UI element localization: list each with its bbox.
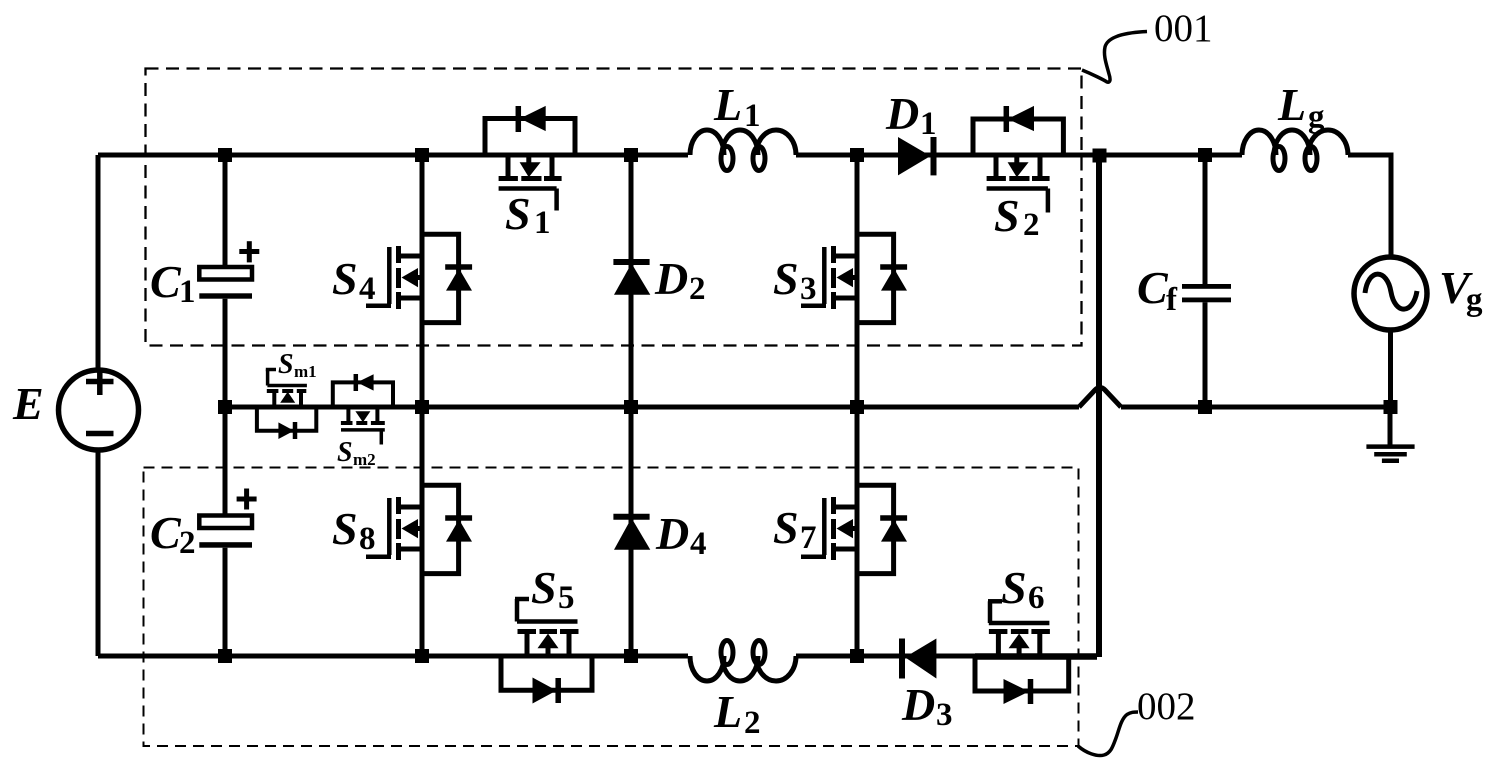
svg-text:2: 2 [1023, 207, 1040, 243]
node bottom rail S8 [415, 649, 429, 663]
svg-text:S: S [278, 349, 294, 380]
svg-text:g: g [1466, 282, 1483, 318]
dashed box 002 [144, 468, 1079, 747]
svg-text:3: 3 [800, 271, 817, 307]
wire Vg bottom [1388, 330, 1393, 407]
svg-text:D: D [655, 508, 689, 559]
node bottom rail D4 [624, 649, 638, 663]
node top rail C1 [218, 148, 232, 162]
svg-text:g: g [1308, 99, 1325, 135]
inductor L2 [690, 641, 796, 682]
svg-text:L: L [713, 79, 742, 130]
node middle rail C1C2 [218, 400, 232, 414]
wire middle rail right [1121, 405, 1390, 410]
wire top rail left [98, 153, 688, 158]
diode of S6 (antiparallel) [975, 656, 1069, 704]
wire E branch bottom [96, 449, 101, 656]
inductor L1 [690, 130, 796, 171]
wire Cf branch top [1203, 155, 1208, 284]
Vg sine wave [1365, 274, 1417, 309]
svg-text:1: 1 [920, 106, 937, 142]
diode D1 [898, 137, 934, 175]
node middle rail S3S7 [850, 400, 864, 414]
switch S1 body [499, 155, 562, 211]
diode of S2 (antiparallel) [973, 106, 1063, 155]
wire S7 branch [855, 407, 860, 656]
diode of S8 (antiparallel) [422, 485, 472, 573]
switch Sm1 body [266, 370, 307, 408]
svg-text:E: E [12, 378, 44, 429]
wire D4 branch [629, 407, 634, 656]
svg-text:L: L [713, 686, 742, 737]
svg-text:S: S [505, 188, 531, 239]
svg-text:D: D [901, 679, 935, 730]
node middle rail D2D4 [624, 400, 638, 414]
wire hop over vertical at x=1100 [1079, 388, 1121, 408]
wire S4 branch [420, 155, 425, 407]
node top rail S4 [415, 148, 429, 162]
svg-text:D: D [885, 88, 919, 139]
switch S4 body [366, 246, 422, 309]
node top rail Cf [1198, 148, 1212, 162]
ground bars [1366, 447, 1414, 461]
C2 plus sign [237, 489, 257, 510]
wire C2 branch top [223, 407, 228, 516]
node bottom rail C2 [218, 649, 232, 663]
svg-text:6: 6 [1028, 580, 1045, 616]
capacitor C2 top plate [199, 516, 252, 529]
switch S3 body [801, 246, 857, 309]
svg-text:2: 2 [179, 525, 196, 561]
wire middle rail left [225, 405, 1079, 410]
wire right vertical link [1096, 155, 1102, 657]
node middle rail Cf [1198, 400, 1212, 414]
wire bottom rail right [796, 654, 975, 659]
svg-text:002: 002 [1137, 685, 1196, 728]
svg-text:7: 7 [800, 520, 817, 556]
switch Sm2 body [341, 407, 385, 445]
dashed box 001 [146, 69, 1082, 346]
svg-text:S: S [337, 437, 353, 468]
svg-text:4: 4 [690, 526, 707, 562]
wire D2 branch [629, 155, 634, 407]
node top rail S3 [850, 148, 864, 162]
svg-text:S: S [773, 253, 799, 304]
switch S6 body [988, 601, 1050, 656]
node top rail link [1093, 149, 1107, 163]
switch S8 body [366, 497, 422, 560]
wire S3 branch [855, 155, 860, 407]
diode D3 [902, 639, 936, 679]
svg-text:1: 1 [534, 205, 551, 241]
wire S8 branch [420, 407, 425, 656]
svg-text:S: S [1001, 562, 1027, 613]
wire bottom rail left [98, 654, 688, 659]
svg-text:3: 3 [936, 697, 953, 733]
svg-text:C: C [150, 256, 182, 307]
svg-text:C: C [150, 507, 182, 558]
node top rail D2 [624, 148, 638, 162]
diode of S1 (antiparallel) [485, 106, 575, 155]
svg-text:2: 2 [689, 271, 706, 307]
diode of Sm2 (antiparallel) [333, 374, 393, 407]
diode of Sm1 (antiparallel) [257, 407, 316, 439]
leader squiggle 001 [1082, 32, 1147, 83]
wire top rail right to Vg [1348, 155, 1391, 259]
diode of S3 (antiparallel) [857, 234, 907, 322]
diode D4 [613, 517, 650, 550]
svg-text:1: 1 [744, 98, 761, 134]
node middle rail Vg [1384, 400, 1398, 414]
svg-text:1: 1 [179, 274, 196, 310]
svg-text:S: S [994, 190, 1020, 241]
E plus sign [86, 368, 114, 395]
svg-text:S: S [332, 253, 358, 304]
wire C2 branch bottom [223, 548, 228, 656]
svg-text:2: 2 [744, 705, 761, 741]
svg-text:m1: m1 [294, 362, 317, 381]
inductor Lg [1242, 130, 1348, 171]
source Vg circle [1354, 257, 1427, 330]
wire bottom rail right thick segment [975, 653, 1097, 660]
wire C1 branch top [223, 155, 228, 267]
switch S2 body [987, 155, 1050, 213]
svg-text:D: D [654, 253, 688, 304]
wire top rail middle [796, 153, 1242, 158]
capacitor Cf bottom plate [1182, 298, 1231, 303]
wire E branch top [96, 155, 101, 371]
capacitor C1 top plate [199, 267, 252, 280]
capacitor C2 bottom plate [199, 542, 252, 548]
svg-text:C: C [1137, 262, 1169, 313]
svg-text:8: 8 [359, 521, 376, 557]
svg-text:S: S [332, 503, 358, 554]
diode of S4 (antiparallel) [422, 234, 472, 322]
leader squiggle 002 [1078, 712, 1138, 756]
wire C1 branch bottom [223, 299, 228, 407]
switch S5 body [515, 599, 579, 656]
capacitor C1 bottom plate [199, 293, 252, 298]
diode of S5 (antiparallel) [501, 656, 592, 704]
svg-text:L: L [1277, 79, 1306, 130]
svg-text:m2: m2 [353, 450, 376, 469]
svg-text:001: 001 [1154, 7, 1213, 50]
wire Cf branch bottom [1203, 302, 1208, 407]
svg-text:5: 5 [558, 580, 575, 616]
diode D2 [613, 262, 650, 295]
node middle rail S4S8 [415, 400, 429, 414]
svg-text:f: f [1166, 282, 1178, 318]
node bottom rail S7 [850, 649, 864, 663]
E minus sign [86, 431, 114, 437]
svg-text:S: S [531, 562, 557, 613]
source E circle [59, 370, 139, 450]
diode of S7 (antiparallel) [857, 485, 907, 573]
switch S7 body [801, 497, 857, 560]
C1 plus sign [239, 241, 259, 262]
ground stem [1388, 407, 1393, 447]
capacitor Cf top plate [1182, 284, 1231, 289]
svg-text:4: 4 [359, 271, 376, 307]
svg-text:S: S [773, 502, 799, 553]
